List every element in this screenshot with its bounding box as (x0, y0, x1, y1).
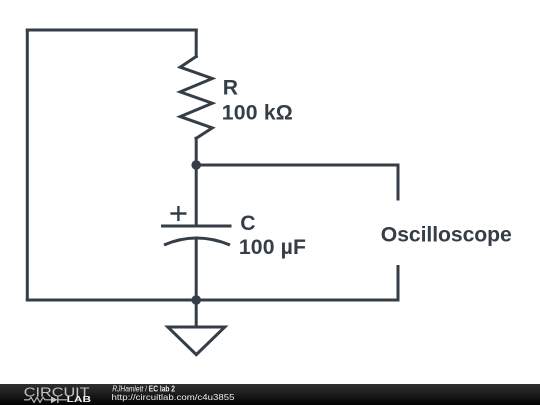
wire: top horizontal from left loop corner to rail (27, 29, 196, 32)
node A junction (191, 160, 201, 170)
wire: left vertical side of loop (26, 30, 29, 300)
node B junction (191, 295, 201, 305)
CircuitLab logo diode triangle (51, 396, 58, 403)
wire: node B to ground (195, 300, 198, 327)
resistor R (180, 57, 212, 139)
svg-text:RJHamlett / EC lab 2: RJHamlett / EC lab 2 (112, 384, 175, 393)
svg-text:LAB: LAB (67, 395, 92, 404)
wire: capacitor bottom to node B (195, 238, 198, 300)
footer bar (0, 384, 540, 405)
wire: bottom horizontal from oscilloscope to node B (196, 299, 398, 302)
capacitor C bottom curved plate (164, 238, 230, 245)
wire: oscilloscope upper stub (397, 165, 400, 199)
capacitor C polarity plus sign (170, 206, 186, 221)
wire: resistor bottom to node A (195, 138, 198, 165)
ground (168, 327, 225, 355)
svg-text:http://circuitlab.com/c4u3855: http://circuitlab.com/c4u3855 (112, 393, 236, 402)
wire: rail top segment into resistor R (195, 30, 198, 57)
wire: bottom horizontal from left corner to node B (27, 299, 196, 302)
wire: oscilloscope lower stub (397, 267, 400, 301)
wire: node A to capacitor top plate (195, 165, 198, 226)
wire: top horizontal from node A to oscilloscope (196, 164, 398, 167)
capacitor C top plate (161, 225, 232, 228)
CircuitLab logo waveform: lead, resistor zigzag, diode (24, 397, 67, 403)
